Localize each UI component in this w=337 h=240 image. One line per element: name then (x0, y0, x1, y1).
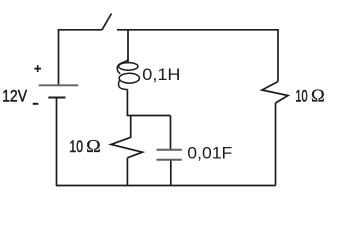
svg-text:0,1H: 0,1H (142, 65, 180, 84)
wire inductor top lead (127, 29, 129, 64)
capacitor C1 top plate (gray) (157, 149, 182, 151)
svg-text:Ω: Ω (311, 86, 325, 106)
svg-text:10: 10 (295, 87, 307, 106)
capacitor C1 bottom plate (gray) (157, 159, 182, 161)
inductor L1 coil loop 2 (119, 73, 139, 83)
svg-text:0,01F: 0,01F (187, 144, 232, 163)
inductor L1 coil exit hook (118, 80, 127, 89)
switch S1 blade (102, 14, 112, 30)
wire battery negative stem (56, 98, 58, 187)
wire right vertical lower (275, 103, 277, 186)
wire capacitor top stem (170, 116, 172, 150)
inductor L1 coil loop 1 (119, 63, 138, 71)
wire right vertical upper (277, 29, 279, 82)
wire capacitor bottom stem (170, 160, 172, 186)
battery plus sign (34, 65, 41, 72)
wire top-left horizontal (59, 29, 103, 31)
wire inductor bottom lead (126, 90, 128, 117)
wire resistor R1 bottom lead (126, 158, 128, 186)
svg-text:10: 10 (69, 137, 83, 156)
svg-text:12V: 12V (2, 86, 28, 105)
battery V1 negative plate (short, black) (48, 97, 65, 99)
battery minus sign (33, 103, 39, 105)
resistor R1 middle zigzag (111, 115, 142, 158)
wire bottom horizontal (56, 185, 276, 187)
wire top-right horizontal (117, 29, 278, 31)
wire middle horizontal to capacitor (127, 115, 171, 117)
svg-text:Ω: Ω (86, 136, 101, 156)
resistor R2 right zigzag (262, 82, 288, 104)
wire left vertical (to battery +) (58, 29, 60, 85)
inductor L1 coil entry hook (117, 59, 128, 74)
battery V1 positive plate (long, gray) (39, 84, 79, 86)
